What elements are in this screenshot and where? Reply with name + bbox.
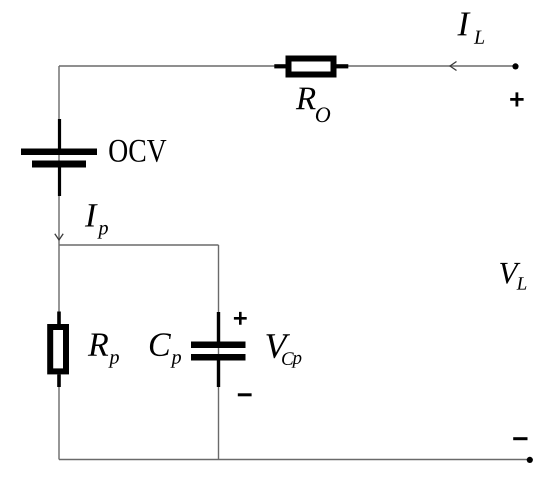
resistor R_O left stub [274, 64, 286, 68]
node negative terminal dot [527, 457, 533, 463]
resistor R_p body [50, 327, 66, 371]
resistor R_O body [289, 59, 334, 75]
node positive terminal dot [512, 63, 518, 69]
resistor R_O right stub [336, 64, 348, 68]
arrow I_p chevron pointing down below battery [55, 234, 63, 240]
wire junction horizontal between R_p branch and C_p branch [59, 244, 219, 246]
label I_L [457, 13, 470, 36]
label V_L [500, 263, 520, 284]
minus sign right terminal [513, 437, 527, 440]
capacitor C_p top plate [191, 342, 246, 349]
wire bottom horizontal to negative terminal [59, 459, 530, 461]
battery OCV bottom lead stub [58, 168, 61, 197]
battery OCV long plate [21, 149, 97, 156]
capacitor C_p bottom plate [191, 354, 246, 361]
plus sign capacitor polarity [234, 312, 247, 325]
label C_p [150, 333, 171, 356]
label R_O [296, 88, 316, 110]
wire left vertical from top corner down to junction node [58, 66, 60, 245]
battery OCV short plate [32, 161, 86, 168]
label R_p [88, 334, 108, 356]
arrow I_L chevron pointing left on top wire [450, 62, 457, 71]
label OCV [109, 140, 166, 162]
wire top horizontal from left corner to positive terminal [59, 65, 515, 67]
battery OCV top lead stub [58, 119, 61, 149]
label V_Cp [266, 334, 290, 358]
label I_p [85, 204, 98, 226]
wire left branch vertical through R_p [58, 245, 60, 460]
resistor R_p bottom stub [57, 374, 61, 387]
plus sign right terminal [510, 92, 523, 106]
capacitor C_p top stub [217, 312, 220, 342]
wire right branch vertical through C_p [218, 245, 220, 460]
resistor R_p top stub [57, 312, 61, 325]
minus sign capacitor polarity [238, 393, 252, 396]
capacitor C_p bottom stub [217, 361, 220, 388]
